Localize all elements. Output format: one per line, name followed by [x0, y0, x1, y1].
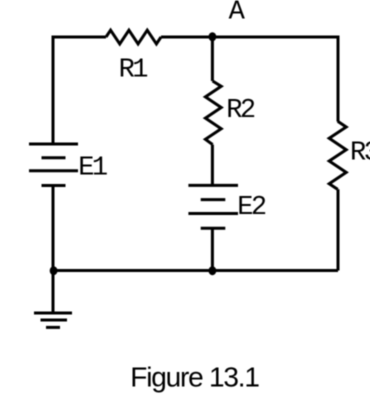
wire node A to R2 [211, 37, 214, 81]
resistor R2 [205, 81, 221, 145]
wire ground stem [52, 271, 55, 314]
wire R2 to E2 [211, 145, 214, 186]
junction dot bottom middle [209, 266, 217, 275]
svg-text:R2: R2 [226, 96, 255, 126]
battery E2 [188, 185, 238, 228]
wire left rail (top corner down to E1) [52, 37, 55, 144]
svg-text:E1: E1 [78, 154, 107, 184]
wire right rail bottom (R3 to corner) [337, 189, 340, 270]
svg-text:R1: R1 [119, 55, 148, 85]
svg-text:A: A [229, 0, 246, 28]
wire E1 bottom to bottom rail [52, 186, 55, 271]
wire bottom rail [53, 269, 338, 272]
svg-text:Figure 13.1: Figure 13.1 [130, 362, 259, 393]
wire right rail top (corner to R3) [337, 37, 340, 122]
svg-text:E2: E2 [237, 193, 266, 223]
resistor R3 [329, 121, 346, 189]
svg-text:R3: R3 [350, 139, 370, 169]
wire top rail right (R1 to node A to top-right corner) [161, 37, 338, 39]
ground [34, 313, 72, 327]
battery E1 [29, 144, 78, 186]
wire top rail left (E1 top to R1) [53, 37, 106, 39]
node A junction dot [209, 32, 217, 41]
resistor R1 [106, 30, 161, 44]
wire E2 to bottom rail [211, 228, 214, 270]
junction dot bottom left [50, 266, 58, 275]
